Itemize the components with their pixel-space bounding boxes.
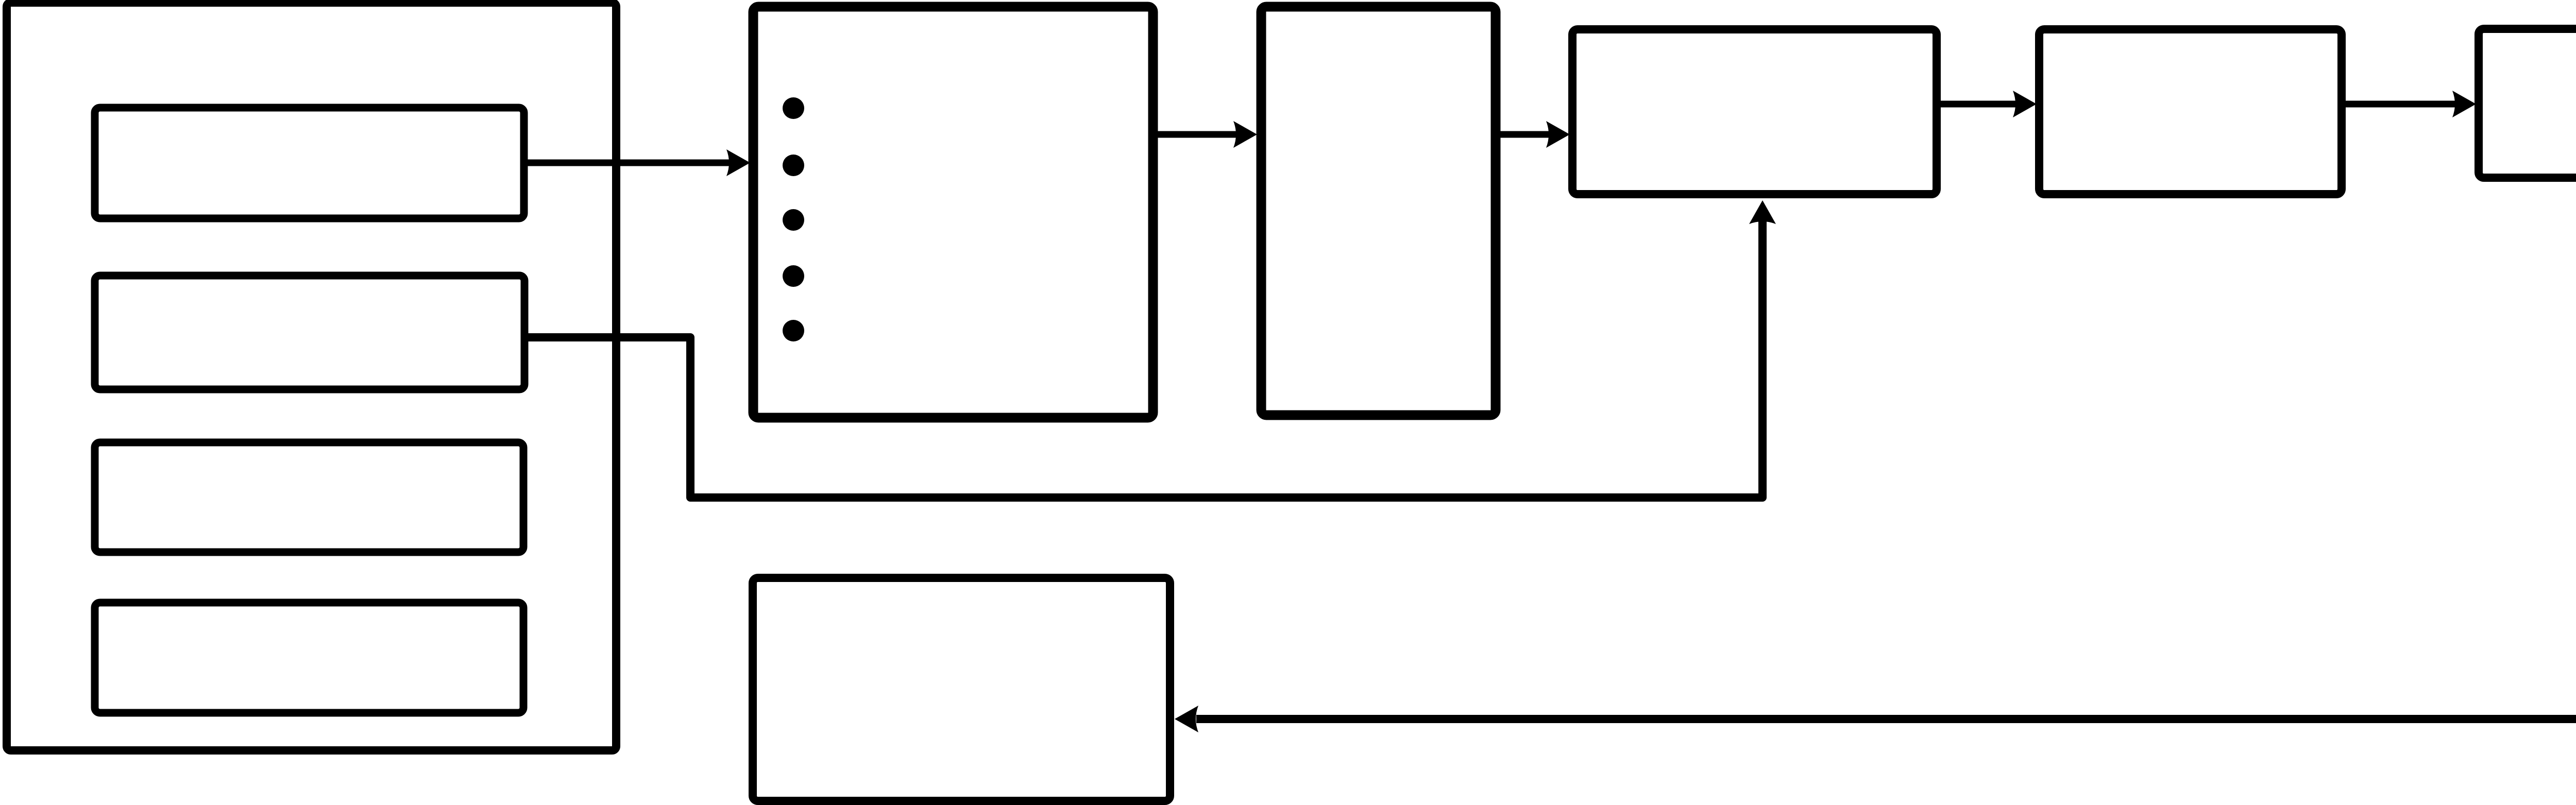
bottom box xyxy=(753,578,1170,801)
inner box 4 xyxy=(95,603,523,713)
outer box (left module group) xyxy=(7,3,616,750)
wire: box1 to selector xyxy=(525,160,729,166)
arrowhead: up into process box A bottom xyxy=(1749,200,1776,224)
arrowhead: into process box A xyxy=(1546,121,1570,148)
inner box 2 xyxy=(95,276,524,389)
inner box 1 xyxy=(95,108,524,218)
wire: process box C bottom feedback to bottom box xyxy=(1200,180,2576,719)
dot 3 xyxy=(783,209,804,231)
arrowhead: into selector xyxy=(726,149,750,176)
tall box 2 xyxy=(1261,7,1496,415)
arrowhead: into process box B xyxy=(2013,91,2037,117)
process box B xyxy=(2039,29,2342,194)
wire: process box A to process box B xyxy=(1938,101,2017,108)
arrowhead: into process box C xyxy=(2452,91,2476,117)
wire: box2 feedback to process box A bottom xyxy=(525,225,1762,498)
wire: process box B to process box C xyxy=(2343,101,2455,108)
dot 4 xyxy=(783,265,804,287)
dot 2 xyxy=(783,155,804,176)
inner box 3 xyxy=(95,442,523,552)
selector box with dots xyxy=(753,7,1153,418)
dot 1 xyxy=(783,97,804,119)
dot 5 xyxy=(783,320,804,341)
wire: tall box 2 to process box A xyxy=(1497,131,1551,138)
arrowhead: into tall box 2 xyxy=(1233,121,1257,148)
arrowhead: left into bottom box xyxy=(1175,706,1198,732)
wire: selector to tall box 2 xyxy=(1154,131,1239,138)
process box A xyxy=(1572,29,1937,194)
process box C xyxy=(2479,29,2576,178)
